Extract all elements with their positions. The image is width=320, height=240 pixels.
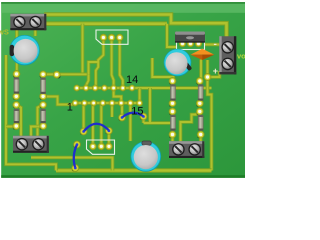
switch S1 body (175, 32, 205, 43)
label minus (214, 39, 217, 50)
terminal block J1 (10, 14, 46, 30)
resistor R1 top (13, 71, 20, 100)
pad JP1-1 (100, 34, 107, 41)
label vS silkscreen (0, 27, 9, 36)
terminal block J4 output (219, 36, 236, 74)
wire J1 pad2 stub (33, 28, 37, 36)
wire R2 upper mid to pin1 (43, 97, 75, 105)
label pin 15 (131, 106, 143, 118)
wire J1 pad1 down to R1 (15, 28, 19, 74)
pad JP2-1 (90, 143, 97, 150)
pad JP1-2 (108, 34, 115, 41)
wire mid Z route pin5 to pin6 (114, 88, 122, 103)
capacitor C1 (9, 35, 39, 65)
wire R1 lower mid to J2 pad1 (16, 105, 21, 137)
wire mid bottom rail (31, 158, 113, 171)
resistor R5b bottom (196, 108, 204, 138)
resistor R2b bottom (40, 101, 47, 129)
wire left ground rail (6, 55, 56, 171)
wire R4 R5 lower stubs (173, 135, 201, 142)
resistor R5 top right (196, 78, 203, 107)
resistor R4 top right (169, 78, 176, 107)
capacitor C2 (164, 49, 193, 77)
label plus (213, 66, 218, 76)
jumper wire W1 (80, 124, 112, 135)
svg-text:14: 14 (126, 74, 138, 86)
wire R1 bottom pad to left rail (6, 125, 16, 129)
silkscreen box JP2 (87, 140, 115, 154)
svg-text:15: 15 (131, 106, 143, 118)
resistor R2 top (40, 71, 47, 100)
wire minus terminal trace (205, 43, 220, 47)
pad S1-3 (195, 40, 201, 46)
jumper wire W2 (119, 113, 147, 121)
wire DIP bottom row bus (73, 101, 142, 105)
label vo silkscreen (237, 52, 246, 61)
wire pin15 stub (138, 88, 142, 103)
svg-text:wS: wS (0, 27, 9, 36)
svg-text:-: - (214, 39, 217, 50)
wire bottom ground rail (56, 168, 212, 173)
wire box2 pad1 vertical (91, 103, 95, 146)
silkscreen box JP1 (96, 30, 128, 44)
diode D1 orange (191, 49, 215, 60)
pad S1-1 (179, 40, 185, 46)
resistor R1b bottom (13, 101, 20, 129)
pad right junction (204, 74, 211, 81)
wire DIP top row bus (75, 86, 212, 90)
wire box2 pad2 vertical (100, 103, 104, 146)
pad group DIP bottom row (72, 100, 142, 106)
pad JP1-3 (116, 34, 123, 41)
wire right spine (208, 60, 212, 171)
wire vertical from rail B to node A (81, 24, 85, 75)
wire R5 lower pad to J3 (181, 112, 200, 143)
terminal block J2 (13, 136, 49, 153)
wire header JP1 pad3 down (120, 38, 123, 88)
wire top rail B (44, 21, 167, 26)
wire D1 to R5 (199, 60, 203, 82)
wire header JP1 pad2 down (112, 38, 114, 88)
pad S1-2 (187, 40, 193, 46)
pad node A testpoint (53, 71, 60, 78)
wire jumper W1 left stub (82, 103, 86, 132)
silkscreen box S1 footprint (177, 36, 205, 50)
wire C2 negative lead (152, 58, 173, 81)
wire R2 lower mid to J2 pad2 (38, 105, 44, 137)
wire branch to C2 (167, 24, 177, 47)
wire top rail A to J4 (44, 15, 227, 38)
wire jumper W2 left stub (120, 103, 124, 118)
wire bus branch to R4 lower pad (144, 88, 173, 123)
svg-text:vo: vo (237, 52, 245, 61)
wire pin5 stub (110, 103, 114, 117)
capacitor C3 (131, 141, 162, 172)
wire node A down to pin 9 (86, 74, 89, 88)
wire node A up to JP1 pad1 (89, 38, 104, 89)
label pin 1 (67, 102, 73, 114)
wire plus terminal stub (208, 71, 220, 77)
PCB board substrate (1, 2, 245, 178)
wire R2 bottom pad hook down (31, 127, 43, 151)
label pin 14 (126, 74, 138, 86)
svg-text:+: + (213, 66, 218, 76)
wire pin7 stub (129, 103, 133, 141)
pad JP2-2 (98, 143, 105, 150)
jumper wire W3 (72, 141, 81, 171)
pad JP2-3 (106, 143, 113, 150)
wire node A run to R2 (43, 73, 88, 77)
resistor R4b bottom (169, 108, 176, 138)
pad group DIP top row (74, 85, 135, 91)
wire box2 pad3 vertical (107, 131, 111, 146)
svg-text:1: 1 (67, 102, 73, 114)
terminal block J3 (169, 141, 204, 158)
